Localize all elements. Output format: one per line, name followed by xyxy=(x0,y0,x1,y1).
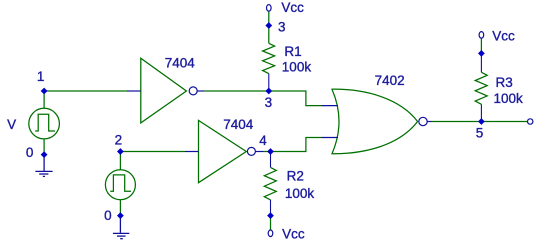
resistor R1 bottom lead xyxy=(268,74,270,91)
wire Vcc port to R3 top node xyxy=(480,38,482,53)
junction node 1 xyxy=(41,88,48,95)
inverter U1 7404 triangle xyxy=(141,58,187,123)
resistor R3 top lead xyxy=(480,53,482,72)
wire U3 output to node5 and right port xyxy=(432,121,528,123)
svg-text:7402: 7402 xyxy=(375,73,405,88)
voltage source V2 circle xyxy=(105,170,135,200)
Vcc port bubble above R3 xyxy=(479,32,484,39)
junction node 3 xyxy=(265,88,272,95)
wire U2 output to node4 xyxy=(264,151,271,153)
svg-text:100k: 100k xyxy=(282,59,312,74)
svg-text:Vcc: Vcc xyxy=(492,29,515,44)
svg-text:R3: R3 xyxy=(496,75,513,90)
inverter U2 output bubble xyxy=(247,147,255,155)
wire node2 to U2 input pin xyxy=(120,151,185,153)
ground symbol under V2 xyxy=(113,216,129,239)
svg-text:Vcc: Vcc xyxy=(282,226,305,241)
resistor R2 zigzag xyxy=(264,167,276,200)
svg-text:3: 3 xyxy=(265,95,273,110)
junction node 2 xyxy=(117,148,124,155)
svg-text:7404: 7404 xyxy=(165,56,196,71)
svg-text:R1: R1 xyxy=(284,44,301,59)
wire node1 to U1 input pin xyxy=(44,90,127,92)
NOR U3 output bubble xyxy=(419,117,427,125)
svg-text:4: 4 xyxy=(259,133,267,148)
NOR gate U3 7402 body xyxy=(332,89,418,154)
voltage source V1 circle xyxy=(29,108,60,139)
svg-text:0: 0 xyxy=(26,145,34,160)
svg-text:R2: R2 xyxy=(287,169,304,184)
wire node3 to U3 input A (stepped) xyxy=(269,91,322,106)
junction node 4 xyxy=(267,148,274,155)
Vcc port bubble below R2 xyxy=(268,230,273,237)
wire V2 minus terminal to ground node xyxy=(119,200,121,216)
NOR U3 input pin B xyxy=(322,137,339,139)
svg-text:V: V xyxy=(7,117,16,132)
ground symbol under V1 xyxy=(35,155,52,177)
svg-text:100k: 100k xyxy=(285,186,315,201)
svg-text:7404: 7404 xyxy=(223,117,254,132)
svg-text:1: 1 xyxy=(37,69,45,84)
resistor R3 zigzag xyxy=(475,72,487,104)
inverter U1 output pin xyxy=(197,90,204,92)
junction V1 bottom (ground node) xyxy=(41,151,48,158)
NOR U3 input pin A xyxy=(322,105,339,107)
svg-text:0: 0 xyxy=(104,208,112,223)
wire Vcc port to R1 top node xyxy=(268,11,270,25)
svg-text:100k: 100k xyxy=(494,91,524,106)
svg-text:5: 5 xyxy=(476,126,484,141)
inverter U1 input pin xyxy=(127,90,141,92)
wire node4 to U3 input B (stepped) xyxy=(271,138,322,152)
Vcc port bubble above R1 xyxy=(267,5,272,12)
junction R3 top (Vcc net) xyxy=(478,50,485,57)
inverter U2 input pin xyxy=(185,151,199,153)
resistor R3 bottom lead xyxy=(480,104,482,121)
resistor R2 top lead xyxy=(270,152,272,168)
wire node2 down to V2 plus terminal xyxy=(119,152,121,170)
voltage source V1 pulse waveform glyph xyxy=(35,114,55,131)
wire R2 bottom node to Vcc port xyxy=(270,216,272,230)
voltage source V2 pulse waveform glyph xyxy=(110,175,131,191)
svg-text:3: 3 xyxy=(278,20,286,35)
inverter U2 7404 triangle xyxy=(199,120,247,182)
wire U1 output to node3 xyxy=(204,90,268,92)
svg-text:Vcc: Vcc xyxy=(281,0,304,15)
svg-text:2: 2 xyxy=(115,133,123,148)
junction R2 bottom (Vcc net) xyxy=(267,212,274,219)
NOR U3 output pin xyxy=(427,121,431,123)
wire node1 down to V1 plus terminal xyxy=(43,91,45,108)
junction V2 bottom (ground node) xyxy=(117,212,124,219)
resistor R2 bottom lead xyxy=(270,200,272,216)
wire V1 minus terminal to ground node xyxy=(43,139,45,155)
junction R1 top (Vcc net) xyxy=(265,22,272,29)
output port bubble at right edge xyxy=(528,119,533,124)
inverter U2 output pin xyxy=(255,151,263,153)
resistor R1 top lead xyxy=(268,26,270,44)
junction node 5 xyxy=(478,118,485,125)
resistor R1 zigzag xyxy=(263,43,275,73)
inverter U1 output bubble xyxy=(189,87,197,95)
